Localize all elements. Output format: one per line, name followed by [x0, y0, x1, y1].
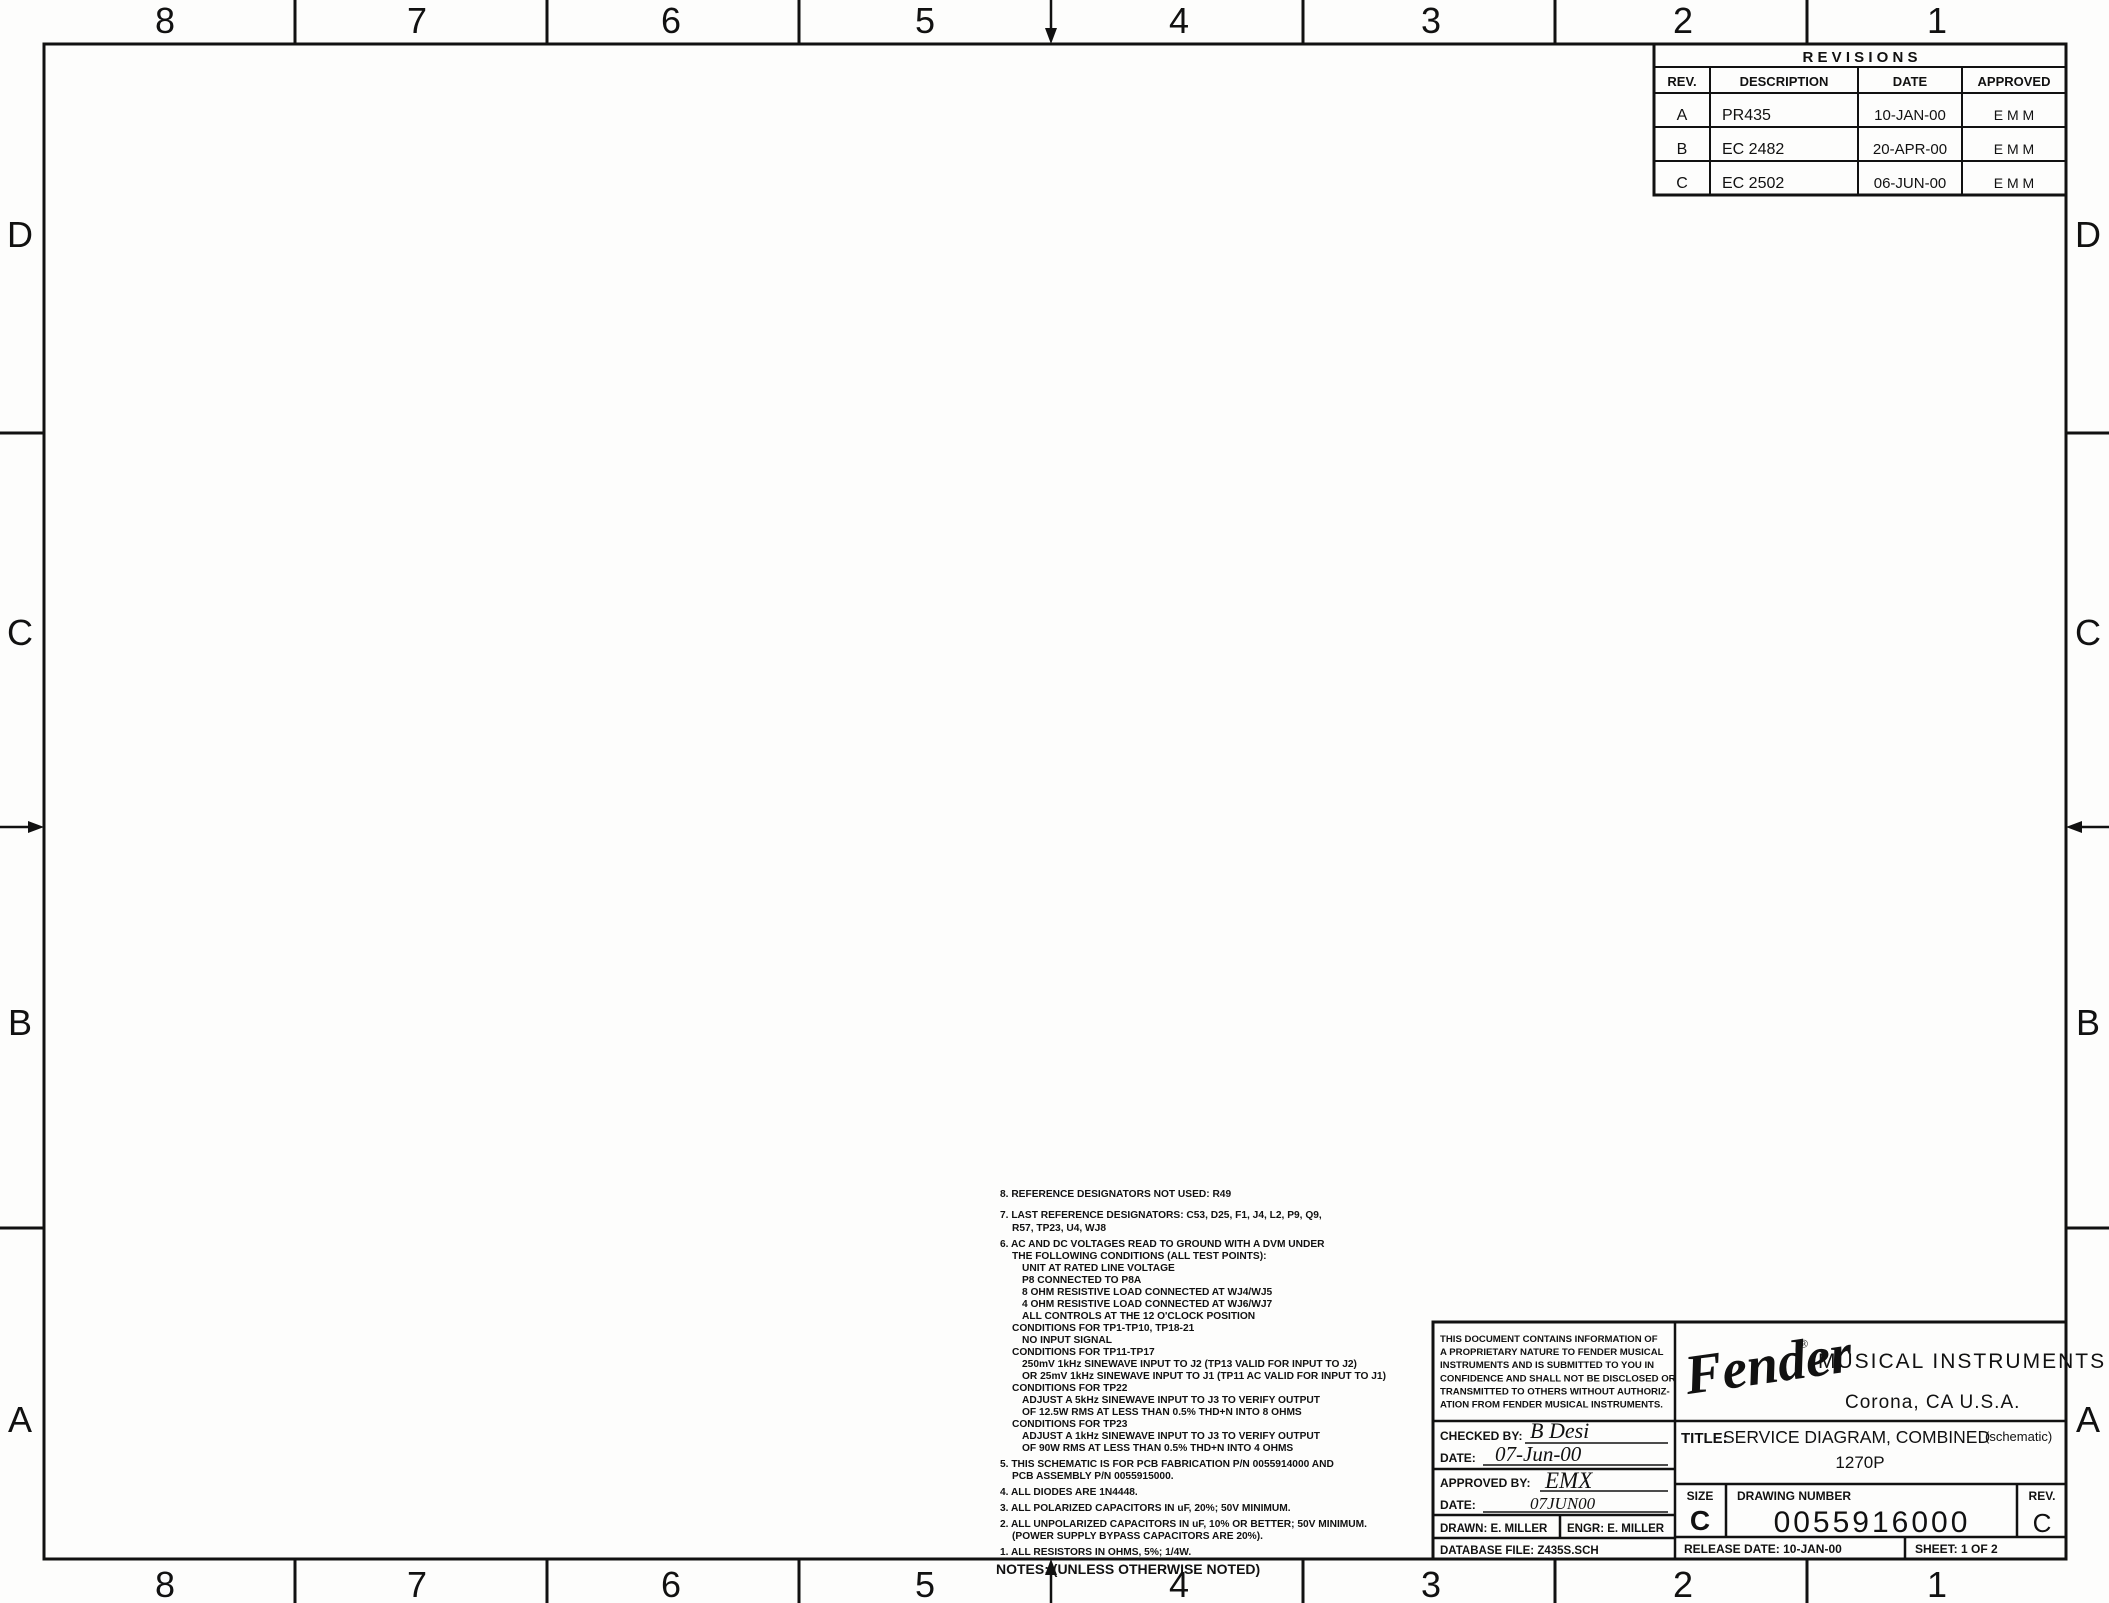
svg-text:R E V I S I O N S: R E V I S I O N S	[1802, 49, 1917, 66]
svg-text:B: B	[2076, 1002, 2100, 1043]
svg-text:07JUN00: 07JUN00	[1530, 1494, 1596, 1513]
svg-text:EC 2482: EC 2482	[1722, 141, 1784, 158]
svg-text:TITLE:: TITLE:	[1681, 1430, 1728, 1447]
svg-text:DRAWN: E. MILLER: DRAWN: E. MILLER	[1440, 1523, 1548, 1535]
svg-text:B Desi: B Desi	[1530, 1418, 1589, 1443]
svg-text:D: D	[7, 214, 33, 255]
svg-text:A PROPRIETARY NATURE TO FENDER: A PROPRIETARY NATURE TO FENDER MUSICAL	[1440, 1347, 1664, 1358]
title block	[1433, 1322, 2066, 1559]
svg-text:CONDITIONS FOR TP11-TP17: CONDITIONS FOR TP11-TP17	[1012, 1347, 1155, 1358]
svg-text:C: C	[1690, 1505, 1710, 1536]
zone tick marks left	[0, 432, 44, 435]
svg-text:NOTES: (UNLESS OTHERWISE NOTE: NOTES: (UNLESS OTHERWISE NOTED)	[996, 1561, 1260, 1577]
svg-text:B: B	[8, 1002, 32, 1043]
svg-text:INSTRUMENTS AND IS SUBMITTED T: INSTRUMENTS AND IS SUBMITTED TO YOU IN	[1440, 1360, 1654, 1371]
svg-text:NO INPUT SIGNAL: NO INPUT SIGNAL	[1022, 1335, 1112, 1346]
revisions table	[1654, 44, 2066, 195]
svg-text:07-Jun-00: 07-Jun-00	[1495, 1442, 1582, 1466]
svg-text:®: ®	[1799, 1338, 1809, 1351]
svg-text:E M M: E M M	[1994, 107, 2034, 123]
svg-text:DESCRIPTION: DESCRIPTION	[1740, 74, 1829, 89]
svg-text:SHEET: 1 OF 2: SHEET: 1 OF 2	[1915, 1542, 1998, 1556]
svg-text:6: 6	[661, 0, 681, 41]
svg-text:1: 1	[1927, 1564, 1947, 1603]
svg-text:5. THIS SCHEMATIC IS FOR PCB F: 5. THIS SCHEMATIC IS FOR PCB FABRICATION…	[1000, 1459, 1334, 1470]
zone tick marks bottom	[294, 1559, 297, 1603]
svg-text:1270P: 1270P	[1835, 1453, 1884, 1472]
svg-text:8 OHM RESISTIVE LOAD CONNECTED: 8 OHM RESISTIVE LOAD CONNECTED AT WJ4/WJ…	[1022, 1287, 1273, 1298]
svg-text:C: C	[2033, 1508, 2052, 1538]
svg-text:R57, TP23, U4, WJ8: R57, TP23, U4, WJ8	[1012, 1223, 1106, 1234]
svg-text:E M M: E M M	[1994, 141, 2034, 157]
svg-text:DRAWING NUMBER: DRAWING NUMBER	[1737, 1489, 1851, 1503]
svg-text:CONDITIONS FOR TP1-TP10, TP18-: CONDITIONS FOR TP1-TP10, TP18-21	[1012, 1323, 1195, 1334]
svg-text:MUSICAL INSTRUMENTS: MUSICAL INSTRUMENTS	[1818, 1350, 2106, 1373]
svg-text:B: B	[1677, 141, 1688, 158]
svg-text:SERVICE DIAGRAM, COMBINED: SERVICE DIAGRAM, COMBINED	[1723, 1427, 1990, 1447]
svg-text:TRANSMITTED TO OTHERS WITHOUT: TRANSMITTED TO OTHERS WITHOUT AUTHORIZ-	[1440, 1386, 1670, 1397]
svg-text:EMX: EMX	[1544, 1468, 1593, 1493]
svg-text:7. LAST REFERENCE DESIGNATORS:: 7. LAST REFERENCE DESIGNATORS: C53, D25,…	[1000, 1210, 1322, 1221]
svg-text:2. ALL UNPOLARIZED CAPACITORS: 2. ALL UNPOLARIZED CAPACITORS IN uF, 10%…	[1000, 1519, 1367, 1530]
svg-text:(schematic): (schematic)	[1985, 1429, 2052, 1444]
svg-text:4: 4	[1169, 0, 1189, 41]
svg-text:ALL CONTROLS AT THE 12 O'CLOCK: ALL CONTROLS AT THE 12 O'CLOCK POSITION	[1022, 1311, 1255, 1322]
svg-text:REV.: REV.	[1667, 74, 1696, 89]
Fender script logo	[1680, 1322, 1857, 1407]
svg-text:Corona, CA U.S.A.: Corona, CA U.S.A.	[1845, 1392, 2020, 1413]
svg-text:7: 7	[407, 1564, 427, 1603]
svg-text:ADJUST A 1kHz SINEWAVE INPUT T: ADJUST A 1kHz SINEWAVE INPUT TO J3 TO VE…	[1022, 1431, 1321, 1442]
svg-text:DATE:: DATE:	[1440, 1498, 1476, 1512]
drawn / engr row	[1559, 1515, 1562, 1538]
svg-text:P8 CONNECTED TO P8A: P8 CONNECTED TO P8A	[1022, 1275, 1142, 1286]
svg-text:5: 5	[915, 0, 935, 41]
svg-text:THE FOLLOWING CONDITIONS (ALL: THE FOLLOWING CONDITIONS (ALL TEST POINT…	[1012, 1251, 1266, 1262]
svg-text:5: 5	[915, 1564, 935, 1603]
svg-text:ATION FROM FENDER MUSICAL INST: ATION FROM FENDER MUSICAL INSTRUMENTS.	[1440, 1400, 1663, 1411]
svg-text:PR435: PR435	[1722, 107, 1771, 124]
svg-text:APPROVED: APPROVED	[1978, 74, 2051, 89]
svg-text:OF 12.5W RMS AT LESS THAN 0.5%: OF 12.5W RMS AT LESS THAN 0.5% THD+N INT…	[1022, 1407, 1302, 1418]
svg-text:A: A	[2076, 1399, 2100, 1440]
svg-text:4 OHM RESISTIVE LOAD CONNECTED: 4 OHM RESISTIVE LOAD CONNECTED AT WJ6/WJ…	[1022, 1299, 1273, 1310]
svg-text:CONDITIONS FOR TP23: CONDITIONS FOR TP23	[1012, 1419, 1128, 1430]
zone tick marks right	[2066, 432, 2109, 435]
sheet alignment arrow right	[2082, 826, 2109, 829]
svg-text:4. ALL DIODES ARE 1N4448.: 4. ALL DIODES ARE 1N4448.	[1000, 1487, 1138, 1498]
svg-text:PCB ASSEMBLY P/N 0055915000.: PCB ASSEMBLY P/N 0055915000.	[1012, 1471, 1174, 1482]
svg-text:3. ALL POLARIZED CAPACITORS IN: 3. ALL POLARIZED CAPACITORS IN uF, 20%; …	[1000, 1503, 1291, 1514]
svg-text:1: 1	[1927, 0, 1947, 41]
sheet alignment arrow left	[0, 826, 28, 829]
svg-text:2: 2	[1673, 0, 1693, 41]
sheet alignment arrow bottom center	[1050, 1573, 1053, 1603]
svg-text:06-JUN-00: 06-JUN-00	[1874, 175, 1947, 192]
svg-text:8: 8	[155, 1564, 175, 1603]
svg-text:0055916000: 0055916000	[1774, 1506, 1971, 1539]
svg-text:ADJUST A 5kHz SINEWAVE INPUT T: ADJUST A 5kHz SINEWAVE INPUT TO J3 TO VE…	[1022, 1395, 1321, 1406]
svg-text:6. AC AND DC VOLTAGES READ TO: 6. AC AND DC VOLTAGES READ TO GROUND WIT…	[1000, 1239, 1325, 1250]
svg-text:A: A	[1677, 107, 1688, 124]
svg-text:D: D	[2075, 214, 2101, 255]
svg-text:250mV 1kHz SINEWAVE INPUT TO J: 250mV 1kHz SINEWAVE INPUT TO J2 (TP13 VA…	[1022, 1359, 1357, 1370]
svg-text:(POWER SUPPLY BYPASS CAPACITOR: (POWER SUPPLY BYPASS CAPACITORS ARE 20%)…	[1012, 1531, 1263, 1542]
svg-text:3: 3	[1421, 1564, 1441, 1603]
svg-text:EC 2502: EC 2502	[1722, 175, 1784, 192]
svg-text:OF 90W RMS AT LESS THAN 0.5% T: OF 90W RMS AT LESS THAN 0.5% THD+N INTO …	[1022, 1443, 1293, 1454]
svg-text:A: A	[8, 1399, 32, 1440]
svg-text:C: C	[1676, 175, 1688, 192]
svg-text:OR 25mV 1kHz SINEWAVE INPUT TO: OR 25mV 1kHz SINEWAVE INPUT TO J1 (TP11 …	[1022, 1371, 1386, 1382]
svg-text:2: 2	[1673, 1564, 1693, 1603]
svg-text:UNIT AT RATED LINE VOLTAGE: UNIT AT RATED LINE VOLTAGE	[1022, 1263, 1175, 1274]
svg-text:1. ALL RESISTORS IN OHMS, 5%;: 1. ALL RESISTORS IN OHMS, 5%; 1/4W.	[1000, 1547, 1191, 1558]
svg-text:ENGR: E. MILLER: ENGR: E. MILLER	[1567, 1523, 1665, 1535]
svg-text:SIZE: SIZE	[1687, 1489, 1714, 1503]
svg-text:7: 7	[407, 0, 427, 41]
svg-text:8. REFERENCE DESIGNATORS NOT U: 8. REFERENCE DESIGNATORS NOT USED: R49	[1000, 1189, 1231, 1200]
svg-text:8: 8	[155, 0, 175, 41]
sheet alignment arrow top center	[1050, 0, 1053, 30]
svg-text:6: 6	[661, 1564, 681, 1603]
svg-text:CONDITIONS FOR TP22: CONDITIONS FOR TP22	[1012, 1383, 1128, 1394]
svg-text:C: C	[7, 612, 33, 653]
svg-text:DATE: DATE	[1893, 74, 1928, 89]
size / drawing number / rev cells	[1725, 1484, 1728, 1537]
svg-text:DATE:: DATE:	[1440, 1451, 1476, 1465]
svg-text:REV.: REV.	[2029, 1489, 2056, 1503]
zone tick marks top	[294, 0, 297, 44]
svg-text:10-JAN-00: 10-JAN-00	[1874, 107, 1946, 124]
svg-text:20-APR-00: 20-APR-00	[1873, 141, 1947, 158]
svg-text:CONFIDENCE AND SHALL NOT BE DI: CONFIDENCE AND SHALL NOT BE DISCLOSED OR	[1440, 1373, 1676, 1384]
svg-text:DATABASE FILE: Z435S.SCH: DATABASE FILE: Z435S.SCH	[1440, 1545, 1599, 1557]
svg-text:C: C	[2075, 612, 2101, 653]
svg-text:3: 3	[1421, 0, 1441, 41]
svg-text:RELEASE DATE: 10-JAN-00: RELEASE DATE: 10-JAN-00	[1684, 1542, 1842, 1556]
svg-text:THIS DOCUMENT CONTAINS INFORMA: THIS DOCUMENT CONTAINS INFORMATION OF	[1440, 1334, 1658, 1345]
release date / sheet row	[1904, 1537, 1907, 1559]
svg-text:APPROVED BY:: APPROVED BY:	[1440, 1476, 1530, 1490]
svg-text:CHECKED BY:: CHECKED BY:	[1440, 1429, 1522, 1443]
svg-text:E M M: E M M	[1994, 175, 2034, 191]
